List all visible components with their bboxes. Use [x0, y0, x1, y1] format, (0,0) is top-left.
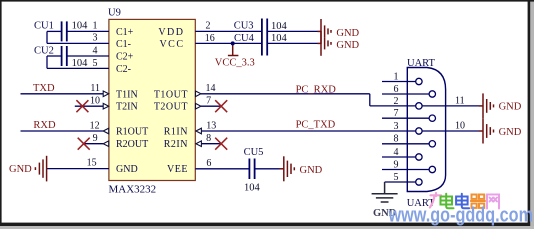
svg-text:VCC: VCC [159, 39, 184, 50]
svg-text:MAX3232: MAX3232 [109, 184, 157, 196]
svg-text:R2OUT: R2OUT [116, 139, 148, 150]
svg-text:3: 3 [93, 33, 98, 44]
svg-text:1: 1 [394, 71, 399, 82]
svg-text:PC_RXD: PC_RXD [296, 84, 337, 95]
svg-text:4: 4 [394, 147, 399, 158]
svg-text:7: 7 [206, 95, 211, 106]
svg-text:U9: U9 [108, 8, 121, 19]
svg-text:104: 104 [72, 58, 89, 69]
svg-text:6: 6 [206, 158, 211, 169]
svg-text:2: 2 [206, 21, 211, 32]
svg-text:R2IN: R2IN [164, 139, 188, 150]
svg-text:104: 104 [271, 33, 288, 44]
svg-text:UART: UART [407, 58, 436, 69]
svg-text:T1IN: T1IN [116, 89, 138, 100]
svg-text:CU2: CU2 [34, 45, 54, 56]
svg-text:14: 14 [206, 83, 216, 94]
svg-text:CU5: CU5 [244, 147, 264, 158]
svg-text:1: 1 [93, 21, 98, 32]
svg-text:104: 104 [72, 20, 89, 31]
svg-text:5: 5 [394, 172, 399, 183]
svg-text:PC_TXD: PC_TXD [296, 119, 336, 130]
svg-text:CU1: CU1 [34, 21, 54, 32]
svg-text:3: 3 [394, 121, 399, 132]
svg-text:6: 6 [394, 84, 399, 95]
svg-text:T1OUT: T1OUT [154, 89, 188, 100]
svg-text:CU3: CU3 [234, 21, 254, 32]
svg-text:9: 9 [93, 133, 98, 144]
svg-text:GND: GND [499, 127, 522, 138]
svg-text:C2+: C2+ [116, 52, 134, 63]
svg-text:GND: GND [116, 164, 138, 175]
svg-text:8: 8 [206, 133, 211, 144]
svg-text:T2IN: T2IN [116, 102, 138, 113]
svg-text:GND: GND [499, 102, 522, 113]
svg-text:4: 4 [93, 45, 98, 56]
svg-text:11: 11 [90, 83, 100, 94]
svg-text:VEE: VEE [167, 164, 188, 175]
svg-text:R1OUT: R1OUT [116, 127, 148, 138]
svg-text:104: 104 [271, 21, 288, 32]
svg-text:CU4: CU4 [234, 33, 255, 44]
svg-text:RXD: RXD [33, 120, 56, 131]
svg-text:C1-: C1- [116, 39, 131, 50]
svg-text:9: 9 [394, 159, 399, 170]
svg-text:TXD: TXD [33, 83, 55, 94]
svg-text:T2OUT: T2OUT [154, 102, 188, 113]
svg-text:12: 12 [90, 120, 100, 131]
svg-text:GND: GND [9, 164, 32, 175]
svg-text:16: 16 [205, 33, 215, 44]
svg-text:11: 11 [455, 95, 465, 106]
svg-text:7: 7 [394, 108, 399, 119]
svg-text:8: 8 [394, 134, 399, 145]
svg-text:C2-: C2- [116, 64, 131, 75]
svg-text:GND: GND [336, 28, 359, 39]
svg-text:www.go-gddq.com: www.go-gddq.com [388, 205, 533, 227]
svg-text:5: 5 [93, 58, 98, 69]
svg-text:R1IN: R1IN [164, 127, 188, 138]
svg-text:10: 10 [90, 95, 100, 106]
svg-text:104: 104 [244, 182, 261, 193]
svg-text:15: 15 [87, 158, 97, 169]
svg-text:VCC_3.3: VCC_3.3 [215, 58, 255, 69]
svg-text:13: 13 [206, 120, 216, 131]
svg-text:10: 10 [455, 121, 465, 132]
svg-text:2: 2 [394, 96, 399, 107]
svg-text:GND: GND [336, 40, 359, 51]
svg-text:GND: GND [300, 165, 323, 176]
svg-text:VDD: VDD [158, 27, 184, 38]
svg-text:C1+: C1+ [116, 27, 134, 38]
